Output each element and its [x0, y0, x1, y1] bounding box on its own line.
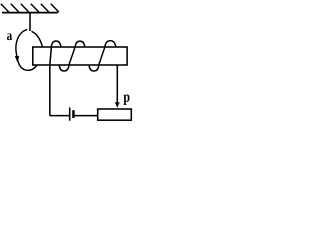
label a — [7, 33, 12, 40]
battery short thick plate — [72, 110, 75, 118]
winding bottom arc 2 — [89, 65, 99, 71]
coil core bar — [33, 47, 127, 65]
winding diagonal 1 — [69, 47, 75, 65]
ceiling hatching — [1, 4, 59, 12]
winding top arc 3 — [105, 41, 116, 47]
rheostat P — [98, 109, 132, 120]
rotation arrowhead — [15, 56, 20, 62]
label p — [124, 95, 130, 106]
winding top arc 1 — [51, 41, 61, 47]
winding diagonal 2 — [99, 47, 105, 65]
rotation arrow arc left — [16, 30, 27, 58]
wiper arrowhead — [115, 102, 120, 108]
winding lead-in wire (front, continues to bottom circuit) — [50, 47, 69, 116]
battery long plate — [69, 107, 71, 120]
winding bottom arc 1 — [59, 65, 69, 71]
rotation arrow arc bottom — [17, 58, 37, 71]
wire battery to rheostat — [75, 115, 98, 117]
winding top arc 2 — [75, 41, 85, 47]
wire from coil to rheostat wiper — [116, 65, 118, 104]
suspension wire — [29, 13, 31, 31]
ceiling support line — [2, 12, 58, 14]
rotation arrow arc right — [32, 31, 43, 48]
